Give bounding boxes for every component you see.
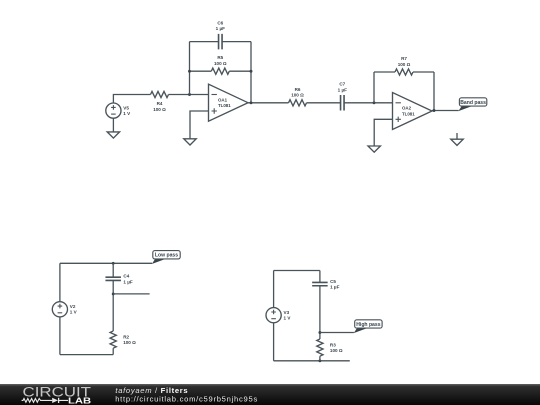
wire R4 to OA1 inverting input	[169, 94, 209, 96]
wire R6 to C7	[307, 102, 341, 104]
ground floating near Band pass	[451, 133, 463, 145]
wire C6 to output vertical	[222, 41, 251, 43]
ground OA2 non-inverting input	[368, 146, 380, 152]
capacitor C5	[312, 279, 339, 290]
wire OA2 output to Band pass flag	[432, 110, 459, 112]
wire to C4	[112, 263, 114, 277]
node C5-R3 junction	[318, 331, 321, 334]
wire C5 to R3	[319, 286, 321, 339]
CircuitLab logo resistor-diode squiggle	[22, 399, 68, 403]
wire OA2 non-inverting input to ground	[374, 119, 392, 146]
wire OA1 output to R6	[248, 102, 289, 104]
wire feedback left vertical	[189, 42, 191, 95]
node R5 right junction	[250, 70, 253, 73]
wire R7 to right vertical	[413, 71, 434, 73]
resistor R7	[395, 56, 413, 75]
wire R3 to bottom	[319, 356, 321, 361]
node high-pass bottom junction	[318, 359, 321, 362]
wire V2 top vertical	[59, 263, 61, 301]
svg-text:http://circuitlab.com/c59rb5nj: http://circuitlab.com/c59rb5njhc95s	[115, 395, 258, 404]
voltage source V2	[52, 302, 77, 317]
wire to R7	[374, 71, 395, 73]
wire feedback2 left vertical	[373, 72, 375, 103]
capacitor C4	[105, 274, 132, 285]
node R5 left junction	[188, 70, 191, 73]
resistor R4	[151, 91, 169, 111]
wire R5 to right vertical	[229, 70, 251, 72]
flag High pass output	[354, 320, 382, 333]
wire top high-pass	[274, 270, 320, 272]
capacitor C7	[338, 82, 347, 111]
node C4-R2 junction	[112, 292, 115, 295]
wire to C5	[319, 271, 321, 283]
resistor R2	[110, 331, 136, 348]
flag Low pass output	[152, 251, 180, 264]
op-amp U1 OA1	[209, 84, 249, 121]
wire bottom low-pass	[60, 354, 113, 356]
wire feedback2 right vertical	[433, 72, 435, 111]
wire V5 to R4	[113, 95, 150, 104]
wire C4 to R2	[112, 280, 114, 331]
flag Band pass output	[458, 98, 486, 111]
wire bottom high-pass	[274, 360, 350, 362]
node low-pass top junction	[112, 262, 115, 265]
wire V3 top vertical	[273, 271, 275, 308]
wire C7 to OA2 inverting input	[344, 102, 392, 104]
node OA2 output junction	[433, 109, 436, 112]
wire V3 bottom vertical	[273, 323, 275, 361]
wire to R5	[190, 70, 212, 72]
node OA2 inverting input junction	[373, 101, 376, 104]
svg-text:LAB: LAB	[68, 396, 92, 405]
op-amp U2 OA2	[393, 93, 433, 130]
wire to C6	[190, 41, 219, 43]
resistor R6	[289, 87, 307, 106]
voltage source V3	[266, 308, 291, 323]
ground V5	[107, 118, 119, 138]
resistor R5	[211, 55, 229, 74]
wire stub low-pass	[113, 293, 149, 295]
wire feedback right vertical	[250, 42, 252, 103]
node OA1 inverting input junction	[188, 93, 191, 96]
wire OA1 non-inverting input to ground	[190, 111, 209, 139]
wire V2 bottom vertical	[59, 317, 61, 355]
wire R2 to bottom	[112, 348, 114, 354]
capacitor C6	[216, 20, 225, 49]
voltage source V5	[106, 103, 131, 118]
resistor R3	[317, 339, 343, 356]
wire to High pass flag	[320, 332, 354, 334]
footer bar	[0, 384, 540, 405]
wire top low-pass	[60, 262, 152, 264]
ground OA1 non-inverting input	[184, 139, 196, 145]
node OA1 output junction	[250, 101, 253, 104]
